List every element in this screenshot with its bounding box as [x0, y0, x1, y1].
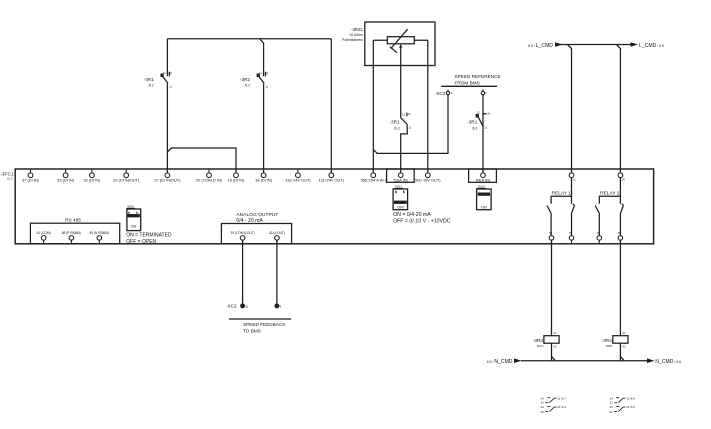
terminal 53	[398, 173, 403, 178]
terminal 29	[124, 169, 129, 178]
svg-text:24: 24	[541, 405, 545, 409]
svg-text:11 /6.7: 11 /6.7	[557, 396, 566, 400]
wire contact -3R1 to terminal 27	[166, 84, 168, 173]
DIP switch S201	[393, 189, 408, 210]
analog output box	[221, 224, 291, 244]
svg-text:14: 14	[487, 112, 490, 116]
svg-text:TRIP: TRIP	[606, 344, 613, 348]
svg-text:ON = 0/4-20 mA: ON = 0/4-20 mA	[393, 212, 431, 218]
speed reference underline	[441, 85, 497, 87]
relay 2 NO contact blade	[620, 204, 623, 236]
svg-text:24: 24	[610, 405, 614, 409]
svg-text:69 (N RS485): 69 (N RS485)	[90, 231, 110, 235]
svg-text:OFF = OPEN: OFF = OPEN	[126, 239, 156, 245]
connector -XC2 pin 6	[446, 90, 449, 95]
svg-text:11 /6.8: 11 /6.8	[626, 396, 635, 400]
svg-text:0/4 - 20 mA: 0/4 - 20 mA	[236, 218, 263, 224]
terminal 32	[90, 169, 95, 178]
terminal 37	[28, 169, 33, 178]
svg-text:10: 10	[245, 305, 248, 309]
contact -3R1 blade right (BMS ref)	[478, 114, 486, 127]
coil -3R3	[544, 336, 559, 344]
svg-text:14: 14	[169, 71, 172, 75]
contact -3R1 blade middle (pot wiper)	[401, 113, 408, 125]
net arrow L_CMD out	[631, 42, 639, 47]
svg-text:A1: A1	[622, 331, 626, 335]
svg-text:54(A IN): 54(A IN)	[476, 177, 491, 182]
svg-text:-XC2: -XC2	[226, 304, 237, 309]
relay 1 bracket	[551, 196, 571, 204]
potentiometer -3RZ1 body	[387, 37, 414, 44]
node L_CMD tap 2	[616, 45, 620, 173]
svg-text:01: 01	[573, 178, 576, 182]
connector -XC2 pin 7	[481, 90, 484, 95]
relay 2 NC contact blade	[595, 206, 599, 236]
svg-text:OFF: OFF	[397, 205, 405, 209]
wire contact to terminal 53 with jog	[401, 124, 408, 172]
svg-text:Potentiometru: Potentiometru	[342, 38, 363, 42]
wire contact -3R2 to terminal 18	[263, 84, 265, 173]
svg-text:/6.3: /6.3	[472, 126, 478, 130]
svg-text:29 (DI IN/OUT): 29 (DI IN/OUT)	[113, 177, 140, 182]
svg-text:-3R1: -3R1	[390, 120, 400, 125]
svg-text:11: 11	[408, 125, 411, 129]
svg-text:55(COM A IN ): 55(COM A IN )	[361, 177, 387, 182]
svg-text:06: 06	[618, 231, 621, 235]
svg-text:FROM BMS: FROM BMS	[455, 81, 480, 86]
svg-text:S201: S201	[395, 185, 402, 189]
svg-text:20 (COM D IN): 20 (COM D IN)	[196, 177, 223, 182]
connector -XC2 pin 9	[275, 304, 279, 308]
L_CMD bus top right	[556, 44, 631, 46]
svg-text:/6.3: /6.3	[394, 126, 400, 130]
terminal 27	[165, 173, 170, 178]
wire pot right leg to terminal 50	[414, 40, 428, 172]
svg-text:12: 12	[163, 71, 166, 75]
wire terminal 42 to XC2	[276, 240, 278, 304]
svg-text:ON: ON	[131, 225, 137, 229]
connector -XC2 pin 10	[241, 304, 245, 308]
svg-text:RS 485: RS 485	[65, 218, 81, 223]
terminal 68	[69, 236, 74, 244]
svg-text:-3R1: -3R1	[467, 120, 477, 125]
terminal 39	[240, 236, 245, 244]
svg-text:-3RZ1: -3RZ1	[351, 27, 364, 32]
terminal 01	[569, 173, 574, 178]
svg-text:42 (A OUT): 42 (A OUT)	[269, 231, 285, 235]
potentiometer enclosure	[365, 22, 435, 66]
svg-text:A2: A2	[622, 345, 626, 349]
svg-text:SPEED FEEDBACK: SPEED FEEDBACK	[243, 322, 286, 327]
svg-text:SPEED REFERENCE: SPEED REFERENCE	[455, 74, 501, 79]
terminal 20	[207, 169, 212, 178]
wire relay2 terminal 06 to coil -3R4	[619, 240, 621, 336]
terminal circles on drive top edge	[28, 90, 623, 308]
terminal 06	[618, 236, 623, 244]
svg-text:TO BMS: TO BMS	[243, 328, 261, 333]
terminal 50	[425, 173, 430, 178]
svg-text:21 /6.1: 21 /6.1	[557, 405, 566, 409]
svg-text:27 (DI IN/OUT): 27 (DI IN/OUT)	[154, 177, 181, 182]
svg-text:05: 05	[597, 231, 600, 235]
svg-text:61 (COM): 61 (COM)	[37, 231, 51, 235]
relay 2 bracket	[599, 196, 620, 204]
terminal 55	[371, 173, 376, 178]
contact -3R2 blade	[259, 72, 266, 84]
svg-text:18 (DI IN): 18 (DI IN)	[255, 177, 273, 182]
node N_CMD junction 2	[620, 357, 624, 361]
svg-text:RELAY 1: RELAY 1	[552, 191, 572, 197]
terminal 12	[329, 173, 334, 178]
wire pot left leg to terminal 55	[373, 40, 387, 172]
terminal 05	[597, 236, 602, 244]
wire XC2 pin6 to node on 55 wire	[373, 95, 448, 154]
terminal 02	[549, 236, 554, 244]
relay 1 NC contact blade	[547, 206, 551, 236]
svg-text:S202: S202	[478, 185, 485, 189]
wire terminal 39 to XC2	[242, 240, 244, 304]
svg-text:33 (DI IN): 33 (DI IN)	[57, 177, 75, 182]
svg-text:12: 12	[610, 400, 614, 404]
svg-text:13(+24V OUT): 13(+24V OUT)	[285, 177, 311, 182]
terminal 04	[618, 173, 623, 178]
svg-text:/1.7: /1.7	[7, 177, 13, 181]
svg-text:RUN: RUN	[537, 344, 544, 348]
node junction branch to terminal 19	[167, 148, 236, 173]
svg-text:ON: ON	[481, 205, 487, 209]
net arrow N_CMD in	[514, 358, 522, 363]
node N_CMD junction 1	[552, 357, 556, 361]
terminal 53 box	[387, 169, 415, 182]
svg-text:22: 22	[610, 410, 614, 414]
svg-text:12: 12	[259, 71, 262, 75]
pot wiper arrowhead	[399, 44, 402, 47]
svg-text:14: 14	[408, 112, 411, 116]
wire coil -3R4 to N_CMD	[619, 343, 621, 361]
relay 1 NO contact blade	[572, 204, 575, 236]
svg-text:03: 03	[569, 231, 572, 235]
svg-text:OFF = 0/-10 V - +10VDC: OFF = 0/-10 V - +10VDC	[393, 218, 451, 224]
potentiometer adjust arrow	[390, 29, 408, 53]
svg-text:19 (DI IN): 19 (DI IN)	[228, 177, 246, 182]
drive enclosure -3FC1	[15, 169, 653, 244]
terminal 18	[261, 173, 266, 178]
svg-text:12: 12	[477, 111, 480, 115]
S801 label underline	[126, 207, 134, 209]
S202 label underline	[477, 187, 486, 189]
svg-text:14: 14	[265, 71, 268, 75]
terminal 54	[481, 173, 486, 178]
svg-text:22: 22	[541, 410, 545, 414]
svg-text:A2: A2	[553, 345, 557, 349]
wire relay1 terminal 02 to coil -3R3	[551, 240, 553, 336]
relay 1 common wire	[571, 178, 573, 204]
contact -3R1 blade top-left	[163, 72, 170, 84]
svg-text:ON = TERMINATED: ON = TERMINATED	[126, 233, 172, 239]
svg-text:50(+10V OUT): 50(+10V OUT)	[415, 177, 441, 182]
terminal 61	[41, 236, 46, 244]
svg-text:32 (DI IN): 32 (DI IN)	[83, 177, 101, 182]
svg-text:53(A IN): 53(A IN)	[394, 177, 409, 182]
cross-reference table -3R4	[610, 396, 636, 414]
svg-text:A1: A1	[553, 331, 557, 335]
net arrows	[514, 42, 655, 363]
svg-text:04: 04	[622, 178, 625, 182]
svg-text:RELAY 2: RELAY 2	[600, 191, 620, 197]
wire bus +24V top horizontal	[167, 38, 331, 40]
wire bus corner down to terminal 12	[330, 39, 332, 173]
svg-text:10 kOhm: 10 kOhm	[349, 33, 363, 37]
terminal 69	[97, 236, 102, 244]
svg-text:/6.2: /6.2	[245, 84, 251, 88]
cross-reference table -3R3	[541, 396, 567, 414]
RS485 box	[30, 223, 119, 244]
wire from bus to contact -3R1	[166, 39, 168, 76]
svg-text:12: 12	[402, 113, 405, 117]
wire pot wiper down	[400, 47, 402, 118]
coil -3R4	[613, 336, 628, 344]
wire XC2 pin7 down to contact	[482, 95, 484, 173]
svg-text:-3R2: -3R2	[240, 77, 250, 82]
terminal 42	[275, 236, 280, 244]
svg-text:68 (P RS485): 68 (P RS485)	[62, 231, 81, 235]
net arrow N_CMD out	[647, 358, 655, 363]
svg-text:S801: S801	[127, 205, 134, 209]
terminal 13	[296, 169, 301, 178]
svg-text:12(+24V OUT): 12(+24V OUT)	[319, 177, 345, 182]
S201 label underline	[394, 187, 403, 189]
net arrow L_CMD in	[555, 42, 563, 47]
svg-text:11: 11	[265, 84, 268, 88]
wire coil -3R3 to N_CMD	[551, 343, 553, 361]
wire bus tap to contact -3R2	[260, 39, 264, 76]
relay 2 common wire	[619, 178, 621, 204]
svg-text:37 (DI IN): 37 (DI IN)	[22, 177, 40, 182]
terminal 03	[569, 236, 574, 244]
terminal 19	[234, 173, 239, 178]
node L_CMD tap 1	[568, 45, 572, 173]
svg-text:-XC2: -XC2	[435, 91, 446, 96]
speed feedback underline	[229, 318, 291, 320]
svg-text:ANALOG OUTPUT: ANALOG OUTPUT	[236, 212, 278, 218]
N_CMD bus	[521, 360, 647, 362]
terminal 33	[63, 169, 68, 178]
svg-text:39 (COM A OUT): 39 (COM A OUT)	[230, 231, 254, 235]
svg-text:-3R1: -3R1	[144, 77, 154, 82]
DIP switch S801	[127, 209, 141, 231]
terminal 54 box	[469, 169, 497, 182]
svg-text:12: 12	[541, 400, 545, 404]
svg-text:11: 11	[484, 125, 487, 129]
DIP switch S202	[477, 189, 492, 210]
svg-text:02: 02	[549, 231, 552, 235]
svg-text:21 /6.2: 21 /6.2	[626, 405, 635, 409]
svg-text:/6.2: /6.2	[148, 84, 154, 88]
